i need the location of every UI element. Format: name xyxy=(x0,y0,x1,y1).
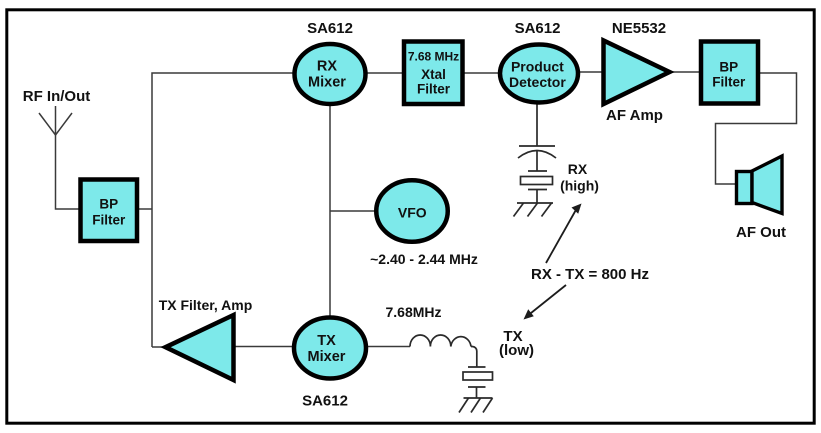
svg-text:AF Amp: AF Amp xyxy=(606,107,663,124)
svg-text:7.68 MHz: 7.68 MHz xyxy=(408,50,459,64)
svg-text:~2.40 - 2.44 MHz: ~2.40 - 2.44 MHz xyxy=(370,251,478,267)
svg-text:RX: RX xyxy=(568,161,588,177)
svg-text:Filter: Filter xyxy=(92,213,126,228)
svg-text:AF Out: AF Out xyxy=(736,224,786,241)
svg-text:Detector: Detector xyxy=(509,74,566,90)
svg-text:RX - TX = 800 Hz: RX - TX = 800 Hz xyxy=(531,266,649,283)
svg-text:TX: TX xyxy=(317,333,336,349)
svg-text:VFO: VFO xyxy=(398,205,427,221)
svg-text:BP: BP xyxy=(99,197,118,212)
svg-text:(high): (high) xyxy=(560,178,599,194)
svg-text:7.68MHz: 7.68MHz xyxy=(385,304,441,320)
svg-text:BP: BP xyxy=(719,60,738,75)
svg-text:TX Filter, Amp: TX Filter, Amp xyxy=(159,297,253,313)
svg-text:Xtal: Xtal xyxy=(421,67,446,82)
svg-text:Product: Product xyxy=(511,59,564,75)
svg-text:SA612: SA612 xyxy=(302,393,348,410)
svg-text:Filter: Filter xyxy=(417,82,451,97)
svg-text:SA612: SA612 xyxy=(515,20,561,37)
svg-text:Filter: Filter xyxy=(712,75,746,90)
svg-text:SA612: SA612 xyxy=(307,20,353,37)
svg-text:Mixer: Mixer xyxy=(308,349,346,365)
svg-text:Mixer: Mixer xyxy=(308,75,346,91)
svg-text:(low): (low) xyxy=(499,342,534,359)
svg-text:NE5532: NE5532 xyxy=(612,20,666,37)
svg-text:RX: RX xyxy=(317,59,337,75)
svg-text:RF In/Out: RF In/Out xyxy=(23,88,91,105)
